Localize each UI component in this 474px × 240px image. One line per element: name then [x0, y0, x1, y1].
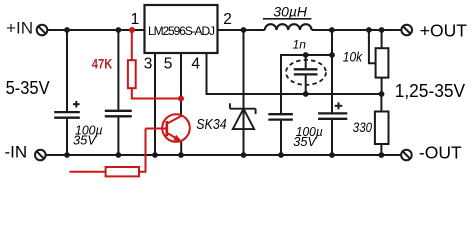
terminal +OUT: [401, 25, 412, 36]
terminal +IN: [37, 25, 48, 36]
svg-text:3: 3: [144, 56, 153, 73]
capacitor C5 1n plates: [294, 69, 318, 74]
red mod wiring: [70, 30, 182, 172]
junction ground rail / C3: [278, 152, 284, 158]
IC U1 LM2596S-ADJ: [145, 5, 218, 53]
svg-text:5: 5: [164, 56, 173, 73]
junction input rail / C2: [116, 27, 122, 33]
terminal -IN: [35, 150, 46, 161]
resistor R2 330 body: [375, 112, 389, 145]
red junction pin5 line / R3 / collector: [178, 96, 184, 102]
capacitor C2 input ceramic plates: [105, 111, 132, 117]
svg-text:35V: 35V: [73, 132, 97, 147]
diode D1 SK34: [230, 103, 256, 129]
wire bottom rail: [46, 154, 401, 156]
svg-text:5-35V: 5-35V: [6, 78, 50, 98]
wire inductor to +OUT: [312, 29, 402, 31]
junction output rail / output node branch: [329, 27, 335, 33]
red junction pin1 / R3: [129, 27, 135, 33]
wire +IN to pin1: [47, 29, 144, 31]
svg-text:1n: 1n: [293, 38, 307, 52]
junction ground rail / R2: [379, 152, 385, 158]
junction feedback line / C5 bottom: [303, 91, 309, 97]
junction ground rail / pin3: [152, 152, 158, 158]
svg-text:330: 330: [353, 120, 373, 135]
wire output node line: [281, 55, 332, 113]
wire input ceramic cap to rail: [117, 117, 119, 155]
wire pin3 to rail: [154, 53, 156, 155]
junction input rail / C1: [64, 27, 70, 33]
junction ground rail / emitter: [178, 152, 184, 158]
junction output rail / pot wiper: [366, 27, 372, 33]
transistor Q1: [162, 114, 190, 142]
wire pin4 feedback: [207, 53, 382, 94]
wire pin2 to inductor: [218, 29, 264, 31]
svg-text:30µH: 30µH: [273, 5, 307, 20]
svg-text:+OUT: +OUT: [420, 20, 467, 40]
Q1 emitter lead: [167, 133, 177, 139]
wire 330 top lead: [380, 94, 382, 112]
wire output elec cap to rail: [331, 119, 333, 155]
C4 plus sign: [335, 102, 343, 109]
capacitor C3 output ceramic plates: [268, 114, 293, 119]
capacitor C1 input electrolytic plates: [54, 112, 80, 118]
capacitor C4 output electrolytic plates: [318, 113, 347, 118]
wire input elec cap to rail: [66, 119, 68, 155]
wire pin5 to collector junction: [180, 53, 182, 116]
svg-text:1: 1: [131, 11, 140, 28]
inductor overline: [263, 18, 312, 20]
wire input elec cap branch: [66, 30, 68, 111]
Q1 collector lead: [167, 116, 182, 124]
junction output node / C4 branch: [329, 52, 335, 58]
svg-text:4: 4: [191, 56, 200, 73]
resistor R4 bottom red body: [106, 167, 139, 176]
C1 plus sign: [73, 101, 80, 108]
wire 330 bottom lead: [380, 144, 382, 155]
junction output node / C5 top: [303, 52, 309, 58]
svg-text:-IN: -IN: [5, 142, 28, 161]
wire 1n top lead: [305, 55, 307, 68]
wire pot bottom lead: [381, 78, 383, 94]
wire input ceramic cap branch: [117, 30, 119, 110]
junction switch node / diode: [241, 27, 247, 33]
wire base to bottom resistor: [139, 129, 146, 172]
resistor R3 47K body: [128, 60, 136, 88]
inductor L1 30µH: [265, 24, 312, 30]
svg-text:1,25-35V: 1,25-35V: [395, 81, 465, 101]
wire pot wiper: [369, 30, 376, 63]
svg-text:35V: 35V: [293, 134, 317, 149]
svg-text:-OUT: -OUT: [419, 143, 462, 163]
wire output ceramic cap to rail: [280, 119, 282, 155]
wire pot top lead: [381, 30, 383, 48]
wire 47K to pin5 line: [132, 88, 181, 98]
junction ground rail / C2: [116, 152, 122, 158]
junction ground rail / diode: [241, 152, 247, 158]
dashed ellipse around 1n: [286, 60, 326, 85]
Q1 circle: [162, 114, 190, 142]
svg-text:SK34: SK34: [196, 117, 226, 133]
wire top rail to output elec cap: [331, 30, 333, 113]
svg-text:47K: 47K: [92, 57, 113, 72]
junction feedback line / pot bottom: [379, 91, 385, 97]
wire bottom resistor open end: [70, 171, 106, 173]
wire base lead: [146, 128, 167, 130]
junction output rail / pot top: [379, 27, 385, 33]
wire emitter to rail: [180, 142, 182, 156]
svg-text:LM2596S-ADJ: LM2596S-ADJ: [148, 24, 215, 38]
wire pin1 to 47K: [131, 30, 133, 60]
Q1 base bar: [165, 121, 168, 136]
terminal -OUT: [401, 150, 412, 161]
wire 1n bottom lead: [305, 74, 307, 94]
Q1 emitter arrowhead: [173, 135, 181, 142]
svg-text:+IN: +IN: [6, 19, 33, 38]
junction ground rail / C1: [64, 152, 70, 158]
potentiometer R1 10k body: [376, 48, 389, 77]
svg-text:10k: 10k: [343, 50, 363, 65]
svg-text:2: 2: [223, 11, 232, 28]
wire diode branch: [243, 30, 245, 155]
junction ground rail / C4: [329, 152, 335, 158]
